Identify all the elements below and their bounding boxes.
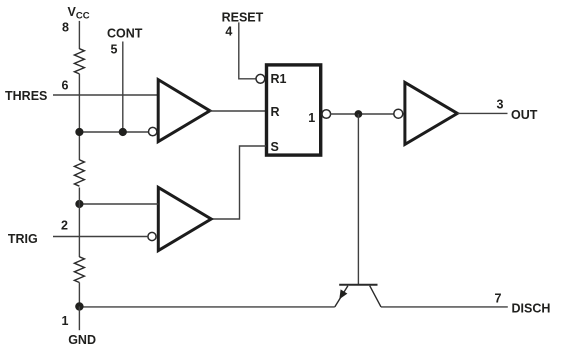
wire GND rail	[79, 306, 334, 308]
junction dot rail/comp1 input	[75, 128, 83, 136]
resistor R-mid (divider)	[74, 160, 84, 186]
wire comp2 noninverting input	[79, 203, 158, 205]
svg-text:TRIG: TRIG	[8, 232, 38, 246]
svg-text:6: 6	[62, 79, 69, 93]
resistor R-top (divider)	[74, 49, 84, 74]
junction dot GND node	[75, 302, 83, 310]
junction dot rail/comp2 input	[75, 200, 83, 208]
wire comparator-1 inverting input	[79, 131, 148, 133]
junction dot CONT/comp1 input	[119, 128, 127, 136]
comparator U-threshold triangle	[149, 80, 210, 142]
wire THRES to comparator	[53, 94, 158, 96]
latch output bubble	[322, 110, 331, 119]
wire rail R-top to R-mid	[78, 74, 80, 160]
svg-text:4: 4	[225, 25, 232, 39]
wire rail R-mid to R-bot	[78, 188, 80, 258]
wire output node to transistor base	[357, 114, 359, 285]
wire TRIG to comp2 inverting input	[53, 236, 148, 238]
svg-text:1: 1	[62, 314, 69, 328]
svg-text:RESET: RESET	[222, 11, 264, 25]
svg-text:7: 7	[495, 292, 502, 306]
svg-text:OUT: OUT	[511, 108, 538, 122]
svg-text:8: 8	[62, 21, 69, 35]
wire VCC rail top	[78, 21, 80, 49]
wire rail R-bot to GND node	[78, 283, 80, 307]
svg-text:R1: R1	[271, 72, 287, 86]
svg-text:5: 5	[110, 43, 117, 57]
junction dot output node	[355, 110, 363, 118]
wire buffer to OUT	[457, 112, 507, 114]
wire GND stub below node	[78, 307, 80, 331]
wire latch output to buffer	[330, 113, 394, 115]
latch box	[267, 65, 321, 155]
wire collector to DISCH	[381, 306, 508, 308]
comparator U-trigger triangle	[148, 187, 211, 250]
latch R1 input bubble	[256, 74, 265, 83]
buffer output stage triangle	[405, 82, 458, 144]
svg-text:3: 3	[497, 97, 504, 111]
wire RESET to latch R1	[239, 22, 256, 78]
resistor R-bot (divider)	[74, 257, 84, 283]
buffer input bubble	[394, 109, 403, 118]
svg-text:GND: GND	[68, 333, 96, 347]
svg-text:S: S	[271, 140, 279, 154]
wire CONT vertical	[122, 42, 124, 133]
wire comp2 output to latch S	[211, 146, 266, 219]
svg-text:2: 2	[61, 219, 68, 233]
svg-text:1: 1	[308, 111, 315, 125]
wire comp1 output to latch R	[210, 110, 266, 112]
svg-text:THRES: THRES	[5, 89, 47, 103]
svg-text:R: R	[271, 105, 280, 119]
svg-text:DISCH: DISCH	[512, 302, 551, 316]
svg-text:CONT: CONT	[107, 27, 143, 41]
transistor Q-discharge	[335, 285, 381, 307]
